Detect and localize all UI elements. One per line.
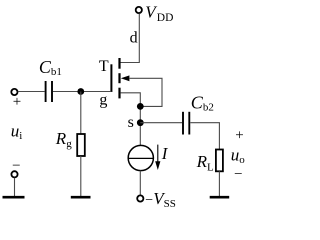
wire input minus to ground — [14, 178, 16, 197]
svg-text:+: + — [235, 127, 243, 143]
wire source down — [120, 93, 140, 146]
wire current source to VSS — [139, 171, 141, 195]
svg-text:d: d — [130, 29, 138, 46]
current arrow — [155, 145, 160, 170]
current source I — [128, 145, 153, 170]
transistor T — [99, 58, 129, 99]
svg-text:T: T — [99, 58, 109, 75]
svg-text:−: − — [234, 166, 242, 182]
wire C_b2 to R_L — [190, 123, 219, 150]
wire R_L to ground — [218, 171, 220, 196]
wire body to source junction — [129, 78, 162, 106]
wire drain to VDD — [120, 14, 139, 63]
wire C_b1 to gate — [53, 91, 111, 93]
source dash — [118, 88, 120, 99]
wire input to C_b1 — [18, 91, 45, 93]
terminal input plus — [11, 89, 17, 95]
terminal VDD — [136, 7, 142, 13]
terminal VSS — [137, 195, 143, 201]
junction node dot — [137, 103, 144, 110]
wire s to C_b2 — [140, 122, 182, 124]
drain dash — [118, 58, 120, 69]
terminal input minus — [11, 171, 17, 177]
ground right — [210, 196, 230, 199]
node gate dot — [77, 88, 84, 95]
ground left — [3, 196, 25, 199]
body dash — [118, 73, 120, 83]
capacitor C_b1 — [46, 81, 52, 102]
capacitor C_b2 — [183, 112, 189, 135]
ground middle — [71, 196, 91, 199]
wire node to R_g — [80, 92, 82, 135]
svg-text:+: + — [13, 94, 21, 110]
resistor R_L — [216, 150, 223, 172]
body arrow — [121, 75, 130, 81]
resistor R_g — [77, 134, 85, 156]
gate bar — [110, 64, 112, 92]
wire R_g to ground — [80, 156, 82, 197]
node s dot — [137, 119, 144, 126]
svg-text:g: g — [99, 92, 107, 109]
svg-text:s: s — [128, 114, 134, 131]
